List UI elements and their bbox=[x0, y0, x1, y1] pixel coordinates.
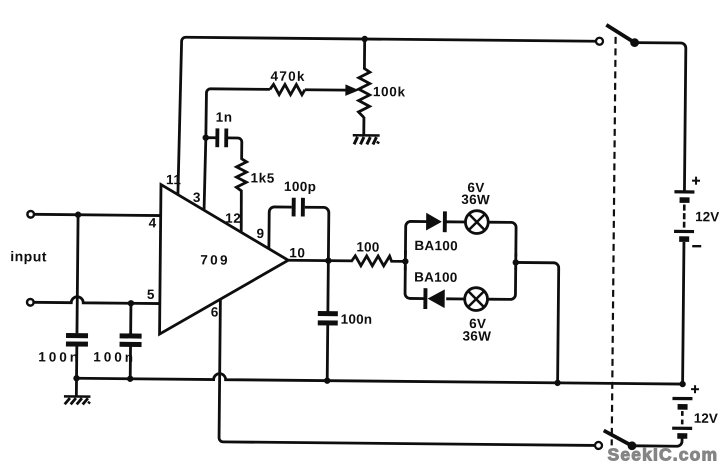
wire pin 9 vertical and 100p left lead bbox=[269, 207, 292, 249]
svg-text:100p: 100p bbox=[284, 179, 317, 194]
battery B1 12V top bbox=[674, 190, 694, 193]
svg-text:12: 12 bbox=[225, 211, 241, 226]
wire arrow to pot wiper bbox=[305, 88, 346, 91]
terminal input upper bbox=[27, 211, 34, 218]
capacitor C4 100n (second) bbox=[120, 333, 142, 338]
svg-text:100n: 100n bbox=[38, 349, 81, 364]
svg-text:4: 4 bbox=[149, 215, 157, 230]
wire battery2 to bottom rail bbox=[636, 438, 682, 447]
svg-text:11: 11 bbox=[166, 172, 182, 187]
battery plus top bbox=[692, 177, 700, 185]
wire 1k5 top bbox=[228, 138, 242, 160]
switch S1b circle bbox=[595, 442, 602, 449]
svg-text:470k: 470k bbox=[270, 69, 305, 84]
svg-text:36W: 36W bbox=[462, 328, 491, 343]
terminal input lower bbox=[27, 299, 34, 306]
ground bottom-left bbox=[64, 396, 91, 404]
ground under pot bbox=[353, 135, 380, 144]
svg-text:1n: 1n bbox=[216, 110, 233, 125]
resistor R4 100 bbox=[352, 256, 406, 266]
wire pin 5 with hop bbox=[34, 296, 160, 303]
svg-text:12V: 12V bbox=[695, 209, 719, 224]
lamp LP1 bbox=[465, 211, 488, 234]
wire lamp2 to right bus bbox=[487, 267, 516, 299]
wire node to drop bbox=[515, 262, 559, 382]
wire cap2 vertical bbox=[129, 303, 132, 333]
node output junction bbox=[325, 257, 331, 263]
wire lamp left bus bbox=[405, 221, 428, 255]
wire 470k left segment and pin 3 drop bbox=[204, 89, 270, 212]
wire pot top vertical bbox=[363, 39, 366, 69]
wire pin 12 vertical bbox=[240, 190, 244, 233]
node lamp right bus bbox=[513, 259, 519, 265]
potentiometer R2 100k bbox=[358, 68, 369, 117]
capacitor C1 1n bbox=[206, 136, 216, 139]
node rail cap3 bbox=[324, 377, 330, 383]
battery plus bottom bbox=[691, 385, 699, 393]
node rail cap2 bbox=[127, 376, 133, 382]
capacitor C2 100p bbox=[292, 198, 296, 217]
node pin5 junction bbox=[128, 300, 134, 306]
svg-text:100k: 100k bbox=[373, 84, 406, 99]
svg-text:100n: 100n bbox=[93, 349, 136, 364]
diode D2 BA100 (bottom, left-pointing) bbox=[423, 288, 427, 309]
switch S1a lever bbox=[606, 25, 635, 43]
node rail cap1 bbox=[73, 375, 79, 381]
svg-text:6: 6 bbox=[211, 305, 219, 320]
svg-text:10: 10 bbox=[289, 245, 305, 260]
wire pin 4 bbox=[34, 214, 160, 215]
svg-text:1k5: 1k5 bbox=[250, 170, 274, 185]
wire battery to rail bbox=[683, 242, 684, 384]
wire left bypass vertical bbox=[77, 215, 78, 333]
node rail drop bbox=[554, 380, 560, 386]
wire lamp1 to right bus bbox=[488, 222, 517, 256]
resistor R1 470k bbox=[270, 84, 305, 95]
svg-text:BA100: BA100 bbox=[414, 269, 458, 284]
wire output bbox=[288, 259, 352, 262]
switch S1b lever bbox=[604, 431, 633, 446]
wire switch to battery top bbox=[633, 43, 686, 191]
wire top rail and pin 11 drop bbox=[178, 37, 596, 199]
svg-text:input: input bbox=[10, 248, 47, 264]
svg-text:5: 5 bbox=[147, 287, 155, 302]
node 1n cap junction bbox=[203, 134, 209, 140]
wire 100p right lead and drop bbox=[304, 207, 329, 260]
node lamp left bus bbox=[402, 258, 408, 264]
node pin4 junction bbox=[75, 212, 81, 218]
svg-text:SeekIC.com: SeekIC.com bbox=[608, 445, 719, 465]
switch S1a circle bbox=[596, 38, 603, 45]
svg-text:3: 3 bbox=[193, 190, 201, 205]
wire pot bottom bbox=[362, 117, 365, 135]
wire ground rail with hop bbox=[77, 372, 683, 384]
svg-text:100: 100 bbox=[356, 239, 379, 254]
battery minus top bbox=[692, 245, 701, 247]
wire pin 6 vertical and bottom rail bbox=[219, 299, 597, 445]
op-amp U1 (709) triangle bbox=[160, 185, 289, 336]
svg-text:12V: 12V bbox=[694, 411, 718, 426]
diode D1 BA100 (top, right-pointing) bbox=[426, 213, 442, 231]
svg-text:36W: 36W bbox=[461, 192, 490, 207]
battery B2 12V bottom bbox=[672, 397, 692, 400]
wire cap3 vertical bbox=[326, 261, 329, 312]
svg-text:9: 9 bbox=[256, 226, 264, 241]
node pot top junction bbox=[361, 36, 367, 42]
dashed gang line bbox=[612, 37, 616, 445]
svg-text:100n: 100n bbox=[341, 312, 373, 327]
node rail battery bbox=[679, 381, 685, 387]
resistor R3 1k5 bbox=[236, 159, 246, 191]
svg-text:709: 709 bbox=[200, 252, 230, 267]
wire ground stub left bbox=[75, 378, 78, 396]
capacitor C5 100n (output) bbox=[318, 311, 338, 316]
capacitor C3 100n (left) bbox=[66, 333, 88, 338]
svg-text:BA100: BA100 bbox=[414, 238, 458, 253]
lamp LP2 bbox=[465, 288, 488, 311]
